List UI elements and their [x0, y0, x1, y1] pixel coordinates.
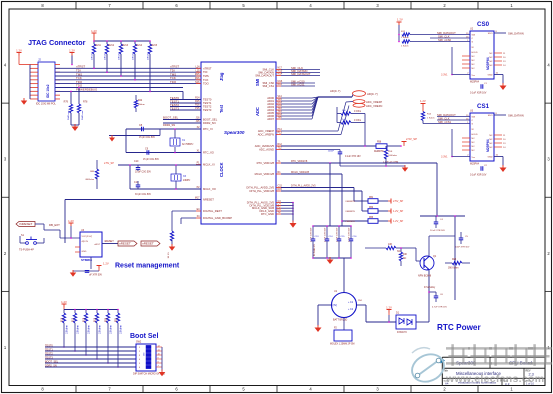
svg-text:10Kohm: 10Kohm [133, 52, 135, 60]
svg-text:TEST3: TEST3 [203, 108, 212, 112]
svg-text:MOLEX 1.25MM 2P SM: MOLEX 1.25MM 2P SM [330, 344, 355, 346]
svg-text:FERRITE: FERRITE [346, 211, 356, 213]
svg-text:M25P64: M25P64 [486, 139, 490, 152]
svg-text:TDI: TDI [203, 70, 208, 74]
svg-text:1.2V: 1.2V [386, 305, 392, 309]
svg-text:R214: R214 [137, 45, 143, 47]
svg-text:Jtag: Jtag [219, 72, 224, 81]
svg-text:+ C2: + C2 [348, 308, 354, 311]
svg-text:SMI_DATAIN: SMI_DATAIN [508, 32, 524, 36]
svg-text:NC: NC [472, 60, 476, 62]
svg-text:4.7nF X7R 50V: 4.7nF X7R 50V [337, 227, 339, 242]
svg-text:4.7nF X7R 50V: 4.7nF X7R 50V [325, 227, 327, 242]
svg-text:GND: GND [82, 251, 87, 253]
svg-text:ON: ON [144, 352, 146, 356]
svg-text:100nF: 100nF [328, 151, 335, 153]
svg-text:IDC 10x2: IDC 10x2 [46, 84, 50, 98]
svg-text:JTAG Connector: JTAG Connector [28, 38, 86, 47]
svg-text:NC: NC [403, 258, 407, 260]
svg-text:BOOT_SEL: BOOT_SEL [45, 361, 59, 364]
svg-text:R212: R212 [109, 45, 115, 47]
svg-text:1.2V: 1.2V [69, 48, 75, 52]
svg-text:AD[0..7]: AD[0..7] [367, 92, 378, 96]
svg-text:2.5V_SP: 2.5V_SP [393, 199, 404, 203]
svg-text:R42: R42 [138, 100, 143, 102]
svg-text:TDO: TDO [170, 80, 177, 84]
svg-text:HOLD: HOLD [472, 134, 478, 136]
svg-text:3.3V1: 3.3V1 [441, 156, 448, 159]
svg-text:TCK: TCK [203, 78, 209, 82]
svg-text:Reset management: Reset management [115, 263, 180, 270]
svg-text:4.7uF X7R 16V: 4.7uF X7R 16V [432, 307, 447, 309]
svg-text:FB6: FB6 [377, 142, 382, 144]
svg-text:nRST: nRST [94, 244, 100, 246]
svg-text:ADC: ADC [255, 107, 260, 116]
svg-text:RTC Power: RTC Power [437, 323, 481, 332]
svg-text:32.768KHz: 32.768KHz [182, 144, 194, 146]
svg-text:SDI: SDI [472, 35, 476, 37]
svg-text:BOOT_SEL: BOOT_SEL [163, 116, 179, 120]
svg-text:DIGITAL_REXT: DIGITAL_REXT [203, 209, 222, 213]
svg-text:10Kohm: 10Kohm [77, 325, 80, 334]
svg-text:(3V): (3V) [332, 304, 337, 307]
svg-text:390 Kohm: 390 Kohm [448, 268, 459, 270]
svg-text:TEST3: TEST3 [170, 106, 179, 110]
svg-text:DITH_PLL_AVDD_2V5: DITH_PLL_AVDD_2V5 [291, 184, 316, 187]
svg-text:1 Kohm: 1 Kohm [401, 37, 409, 39]
svg-text:NC: NC [472, 64, 476, 66]
svg-text:3.3V1: 3.3V1 [441, 74, 448, 77]
svg-text:10Kohm: 10Kohm [66, 325, 69, 334]
svg-text:R78: R78 [83, 101, 88, 104]
svg-text:nRESET: nRESET [104, 240, 114, 243]
svg-text:10Kohm: 10Kohm [119, 52, 121, 60]
svg-text:SMI: SMI [255, 79, 260, 86]
svg-text:R25: R25 [452, 259, 457, 261]
svg-text:NC: NC [472, 68, 476, 70]
svg-text:FERRITE: FERRITE [346, 221, 356, 223]
svg-text:nRESET: nRESET [119, 242, 131, 246]
svg-text:10K: 10K [403, 254, 408, 256]
svg-text:M25P64: M25P64 [486, 57, 490, 70]
svg-text:AD(0..7): AD(0..7) [330, 89, 340, 93]
svg-text:DITH_PLL_VDD1V8: DITH_PLL_VDD1V8 [250, 189, 275, 193]
svg-text:PullDown: PullDown [68, 110, 70, 120]
svg-text:D Schottky: D Schottky [424, 286, 436, 289]
svg-text:10Kohm: 10Kohm [92, 52, 94, 60]
svg-text:FB2: FB2 [369, 207, 374, 209]
svg-text:ADC_VREFP: ADC_VREFP [258, 129, 274, 133]
svg-text:L15: L15 [196, 69, 201, 72]
svg-text:SDI: SDI [472, 117, 476, 119]
svg-text:SMI_DATAOUT: SMI_DATAOUT [437, 113, 456, 117]
svg-text:FB1: FB1 [369, 197, 374, 199]
svg-text:100Kohm: 100Kohm [388, 155, 397, 157]
svg-text:N16: N16 [195, 81, 200, 84]
svg-text:SMI_DATAOUT: SMI_DATAOUT [255, 74, 274, 78]
svg-text:15 pF C0G 50V: 15 pF C0G 50V [143, 159, 159, 161]
svg-text:MCLK_XO: MCLK_XO [203, 187, 216, 191]
svg-text:R17: R17 [73, 317, 75, 322]
svg-text:NC: NC [472, 150, 476, 152]
svg-text:NC: NC [489, 143, 493, 145]
svg-text:1.2V: 1.2V [420, 99, 426, 103]
svg-text:10Kohm: 10Kohm [110, 325, 113, 334]
svg-text:NC: NC [472, 142, 476, 144]
svg-text:FERRITE: FERRITE [374, 151, 384, 153]
svg-text:R18: R18 [84, 317, 86, 322]
svg-text:ADC_AGND: ADC_AGND [259, 148, 274, 152]
svg-text:DB_EXT: DB_EXT [49, 223, 60, 227]
svg-text:NC: NC [489, 65, 493, 67]
svg-text:1uF: 1uF [342, 110, 346, 112]
svg-text:SW2: SW2 [136, 341, 142, 344]
svg-text:10nF X7R 50V: 10nF X7R 50V [455, 247, 470, 249]
svg-text:10K: 10K [388, 243, 393, 246]
svg-text:SMI_DATAOUT: SMI_DATAOUT [437, 31, 456, 35]
svg-text:RTC_VDD1V8: RTC_VDD1V8 [291, 160, 308, 163]
svg-text:4(D IN: 4(D IN [82, 241, 89, 243]
svg-text:MCLK_XI: MCLK_XI [203, 163, 215, 167]
svg-text:10Kohm: 10Kohm [148, 52, 150, 60]
svg-text:0.1uF X5R 16V: 0.1uF X5R 16V [470, 174, 487, 177]
svg-text:SMI_nCS1: SMI_nCS1 [438, 120, 452, 124]
svg-text:NC: NC [489, 53, 493, 55]
svg-text:10Kohm: 10Kohm [105, 52, 107, 60]
svg-text:15 pF C0G 50V: 15 pF C0G 50V [139, 137, 155, 139]
svg-text:TEST3: TEST3 [45, 357, 53, 360]
svg-text:R215: R215 [152, 45, 158, 47]
svg-text:DDR2_SN: DDR2_SN [45, 365, 57, 368]
svg-text:SMI_CLK: SMI_CLK [438, 34, 450, 38]
svg-text:1.2V_SP: 1.2V_SP [393, 209, 404, 213]
svg-text:33 pF C0G 50V: 33 pF C0G 50V [135, 172, 151, 174]
svg-text:RTC_VDD1V8: RTC_VDD1V8 [257, 161, 275, 165]
svg-text:1.2V: 1.2V [61, 300, 67, 304]
svg-text:TEST2: TEST2 [45, 353, 53, 356]
svg-text:ADC_VREFN: ADC_VREFN [258, 133, 274, 137]
svg-text:Boot Sel: Boot Sel [130, 333, 158, 340]
svg-text:ADC_VREFP: ADC_VREFP [366, 100, 382, 104]
svg-text:GND: GND [488, 75, 493, 77]
svg-text:C10: C10 [134, 160, 139, 163]
svg-text:+ C1: + C1 [348, 301, 354, 304]
svg-text:2.5V_SP: 2.5V_SP [406, 137, 417, 141]
svg-text:1.2V: 1.2V [397, 18, 403, 22]
svg-text:R79: R79 [64, 101, 69, 104]
svg-text:10Kohm: 10Kohm [99, 325, 102, 334]
svg-text:DIGITAL_GND_BCOMP: DIGITAL_GND_BCOMP [203, 216, 232, 220]
svg-text:NC: NC [489, 57, 493, 59]
svg-text:M15: M15 [195, 73, 200, 76]
svg-text:R211: R211 [96, 45, 102, 47]
svg-text:BOOT_SEL: BOOT_SEL [203, 118, 218, 122]
svg-text:L14: L14 [196, 66, 201, 69]
svg-text:uF X7R 50V: uF X7R 50V [89, 274, 102, 277]
svg-text:10 nF X7R 50V: 10 nF X7R 50V [430, 230, 445, 232]
svg-text:1.2V_SP: 1.2V_SP [393, 219, 404, 223]
svg-text:FERRITE: FERRITE [346, 201, 356, 203]
svg-text:MCLK_VDD1V8: MCLK_VDD1V8 [291, 171, 310, 174]
svg-text:AD07: AD07 [267, 117, 274, 121]
svg-text:0.1uF X5R 16V: 0.1uF X5R 16V [470, 92, 487, 95]
svg-text:Spear300: Spear300 [224, 130, 245, 135]
svg-text:1.2V: 1.2V [68, 219, 74, 223]
svg-text:INRESET: INRESET [19, 222, 32, 226]
svg-text:TEST0: TEST0 [45, 345, 53, 348]
svg-text:NC: NC [472, 146, 476, 148]
svg-text:DDR2_SN: DDR2_SN [163, 123, 175, 127]
svg-text:MCLK_VDD1V8: MCLK_VDD1V8 [255, 172, 275, 176]
svg-text:680Kohm: 680Kohm [85, 179, 94, 181]
svg-text:10Kohm: 10Kohm [88, 325, 91, 334]
svg-text:68ohm: 68ohm [138, 104, 145, 106]
svg-text:R16: R16 [62, 317, 64, 322]
svg-text:R21: R21 [116, 317, 118, 322]
svg-text:J2: J2 [38, 58, 41, 62]
svg-text:RTC_GND: RTC_GND [261, 212, 274, 216]
svg-text:CLOCK: CLOCK [219, 162, 224, 177]
svg-text:www.elecfans.com: www.elecfans.com [445, 373, 544, 385]
svg-text:DITH_PLL_AVDD_2V5: DITH_PLL_AVDD_2V5 [246, 186, 274, 190]
svg-text:SMI_DATAIN: SMI_DATAIN [508, 114, 524, 118]
svg-text:NPN BC848: NPN BC848 [418, 275, 432, 278]
svg-text:0 Ohm: 0 Ohm [354, 119, 361, 122]
svg-text:1.2V: 1.2V [91, 29, 97, 33]
svg-text:NC: NC [489, 139, 493, 141]
svg-text:GND: GND [488, 157, 493, 159]
svg-text:ADC_AVDD2V5: ADC_AVDD2V5 [255, 144, 275, 148]
svg-text:SDO: SDO [488, 33, 493, 35]
svg-text:1uF: 1uF [342, 119, 346, 121]
svg-text:M25P64: M25P64 [470, 163, 480, 166]
svg-text:CS0: CS0 [477, 21, 490, 28]
svg-text:PullDown: PullDown [82, 110, 84, 120]
svg-text:TEST1: TEST1 [203, 101, 212, 105]
svg-text:RTC_XI: RTC_XI [203, 127, 213, 131]
svg-text:TEST1: TEST1 [45, 349, 53, 352]
svg-text:TS-PUSH-4P: TS-PUSH-4P [19, 249, 34, 252]
svg-text:SMI_nCS0: SMI_nCS0 [438, 38, 452, 42]
svg-text:FB3: FB3 [369, 217, 374, 219]
svg-text:NC: NC [397, 250, 401, 253]
svg-text:NC: NC [489, 61, 493, 63]
svg-text:1 Kohm: 1 Kohm [427, 118, 435, 120]
svg-text:NRESET: NRESET [203, 198, 214, 202]
svg-text:NC: NC [472, 138, 476, 140]
svg-text:R213: R213 [123, 45, 129, 47]
svg-text:NC: NC [472, 56, 476, 58]
svg-text:NC: NC [489, 147, 493, 149]
svg-text:1.2V: 1.2V [16, 48, 22, 52]
svg-text:DDR2_SN: DDR2_SN [203, 121, 216, 125]
svg-text:TMS: TMS [203, 74, 209, 78]
svg-text:SMI_DATAOUT: SMI_DATAOUT [291, 72, 311, 76]
svg-text:1K 1%: 1K 1% [168, 252, 170, 258]
svg-text:1 Kohm: 1 Kohm [401, 45, 409, 47]
svg-text:SMI_CS1: SMI_CS1 [262, 84, 274, 88]
svg-text:M25P64: M25P64 [470, 81, 480, 84]
svg-text:Test: Test [219, 104, 224, 113]
svg-text:TEST0: TEST0 [203, 98, 212, 102]
svg-text:BATT BR20D: BATT BR20D [333, 319, 348, 322]
svg-text:M16: M16 [195, 77, 200, 80]
svg-text:VCC(2.5V): VCC(2.5V) [82, 236, 93, 238]
svg-text:1.2V: 1.2V [103, 262, 109, 266]
svg-text:SMI_nCS1: SMI_nCS1 [291, 83, 305, 87]
svg-text:4s Kaue Ps: 4s Kaue Ps [314, 243, 316, 256]
svg-text:CS1: CS1 [477, 103, 490, 110]
svg-text:R20: R20 [106, 317, 108, 322]
svg-text:IDC 10X2 MII POL: IDC 10X2 MII POL [36, 103, 56, 106]
svg-text:TEST2: TEST2 [203, 105, 212, 109]
svg-text:ADC_VREFN: ADC_VREFN [366, 104, 382, 108]
svg-text:R19: R19 [95, 317, 97, 322]
svg-text:NC: NC [489, 135, 493, 137]
svg-text:SMI_CLK: SMI_CLK [438, 116, 450, 120]
svg-text:D BAV70: D BAV70 [397, 331, 407, 334]
svg-text:2.5V_SP: 2.5V_SP [104, 162, 114, 165]
svg-text:HOLD: HOLD [472, 52, 478, 54]
svg-text:4.7nF X7R 50V: 4.7nF X7R 50V [349, 227, 351, 242]
svg-text:10Kohm: 10Kohm [120, 325, 123, 334]
svg-text:TDO: TDO [203, 82, 209, 86]
svg-text:0.1uF X7R 16V: 0.1uF X7R 16V [345, 156, 361, 158]
svg-text:SDO: SDO [488, 115, 493, 117]
svg-text:0 Ohm: 0 Ohm [354, 110, 361, 113]
svg-text:nRESET: nRESET [142, 242, 154, 246]
svg-text:RTC_XO: RTC_XO [203, 151, 214, 155]
svg-text:nTRST: nTRST [203, 66, 212, 70]
svg-text:33 pF C0G 50V: 33 pF C0G 50V [135, 194, 151, 196]
svg-text:4.7nF X7R 50V: 4.7nF X7R 50V [311, 227, 313, 242]
svg-text:24MHz: 24MHz [183, 180, 191, 182]
